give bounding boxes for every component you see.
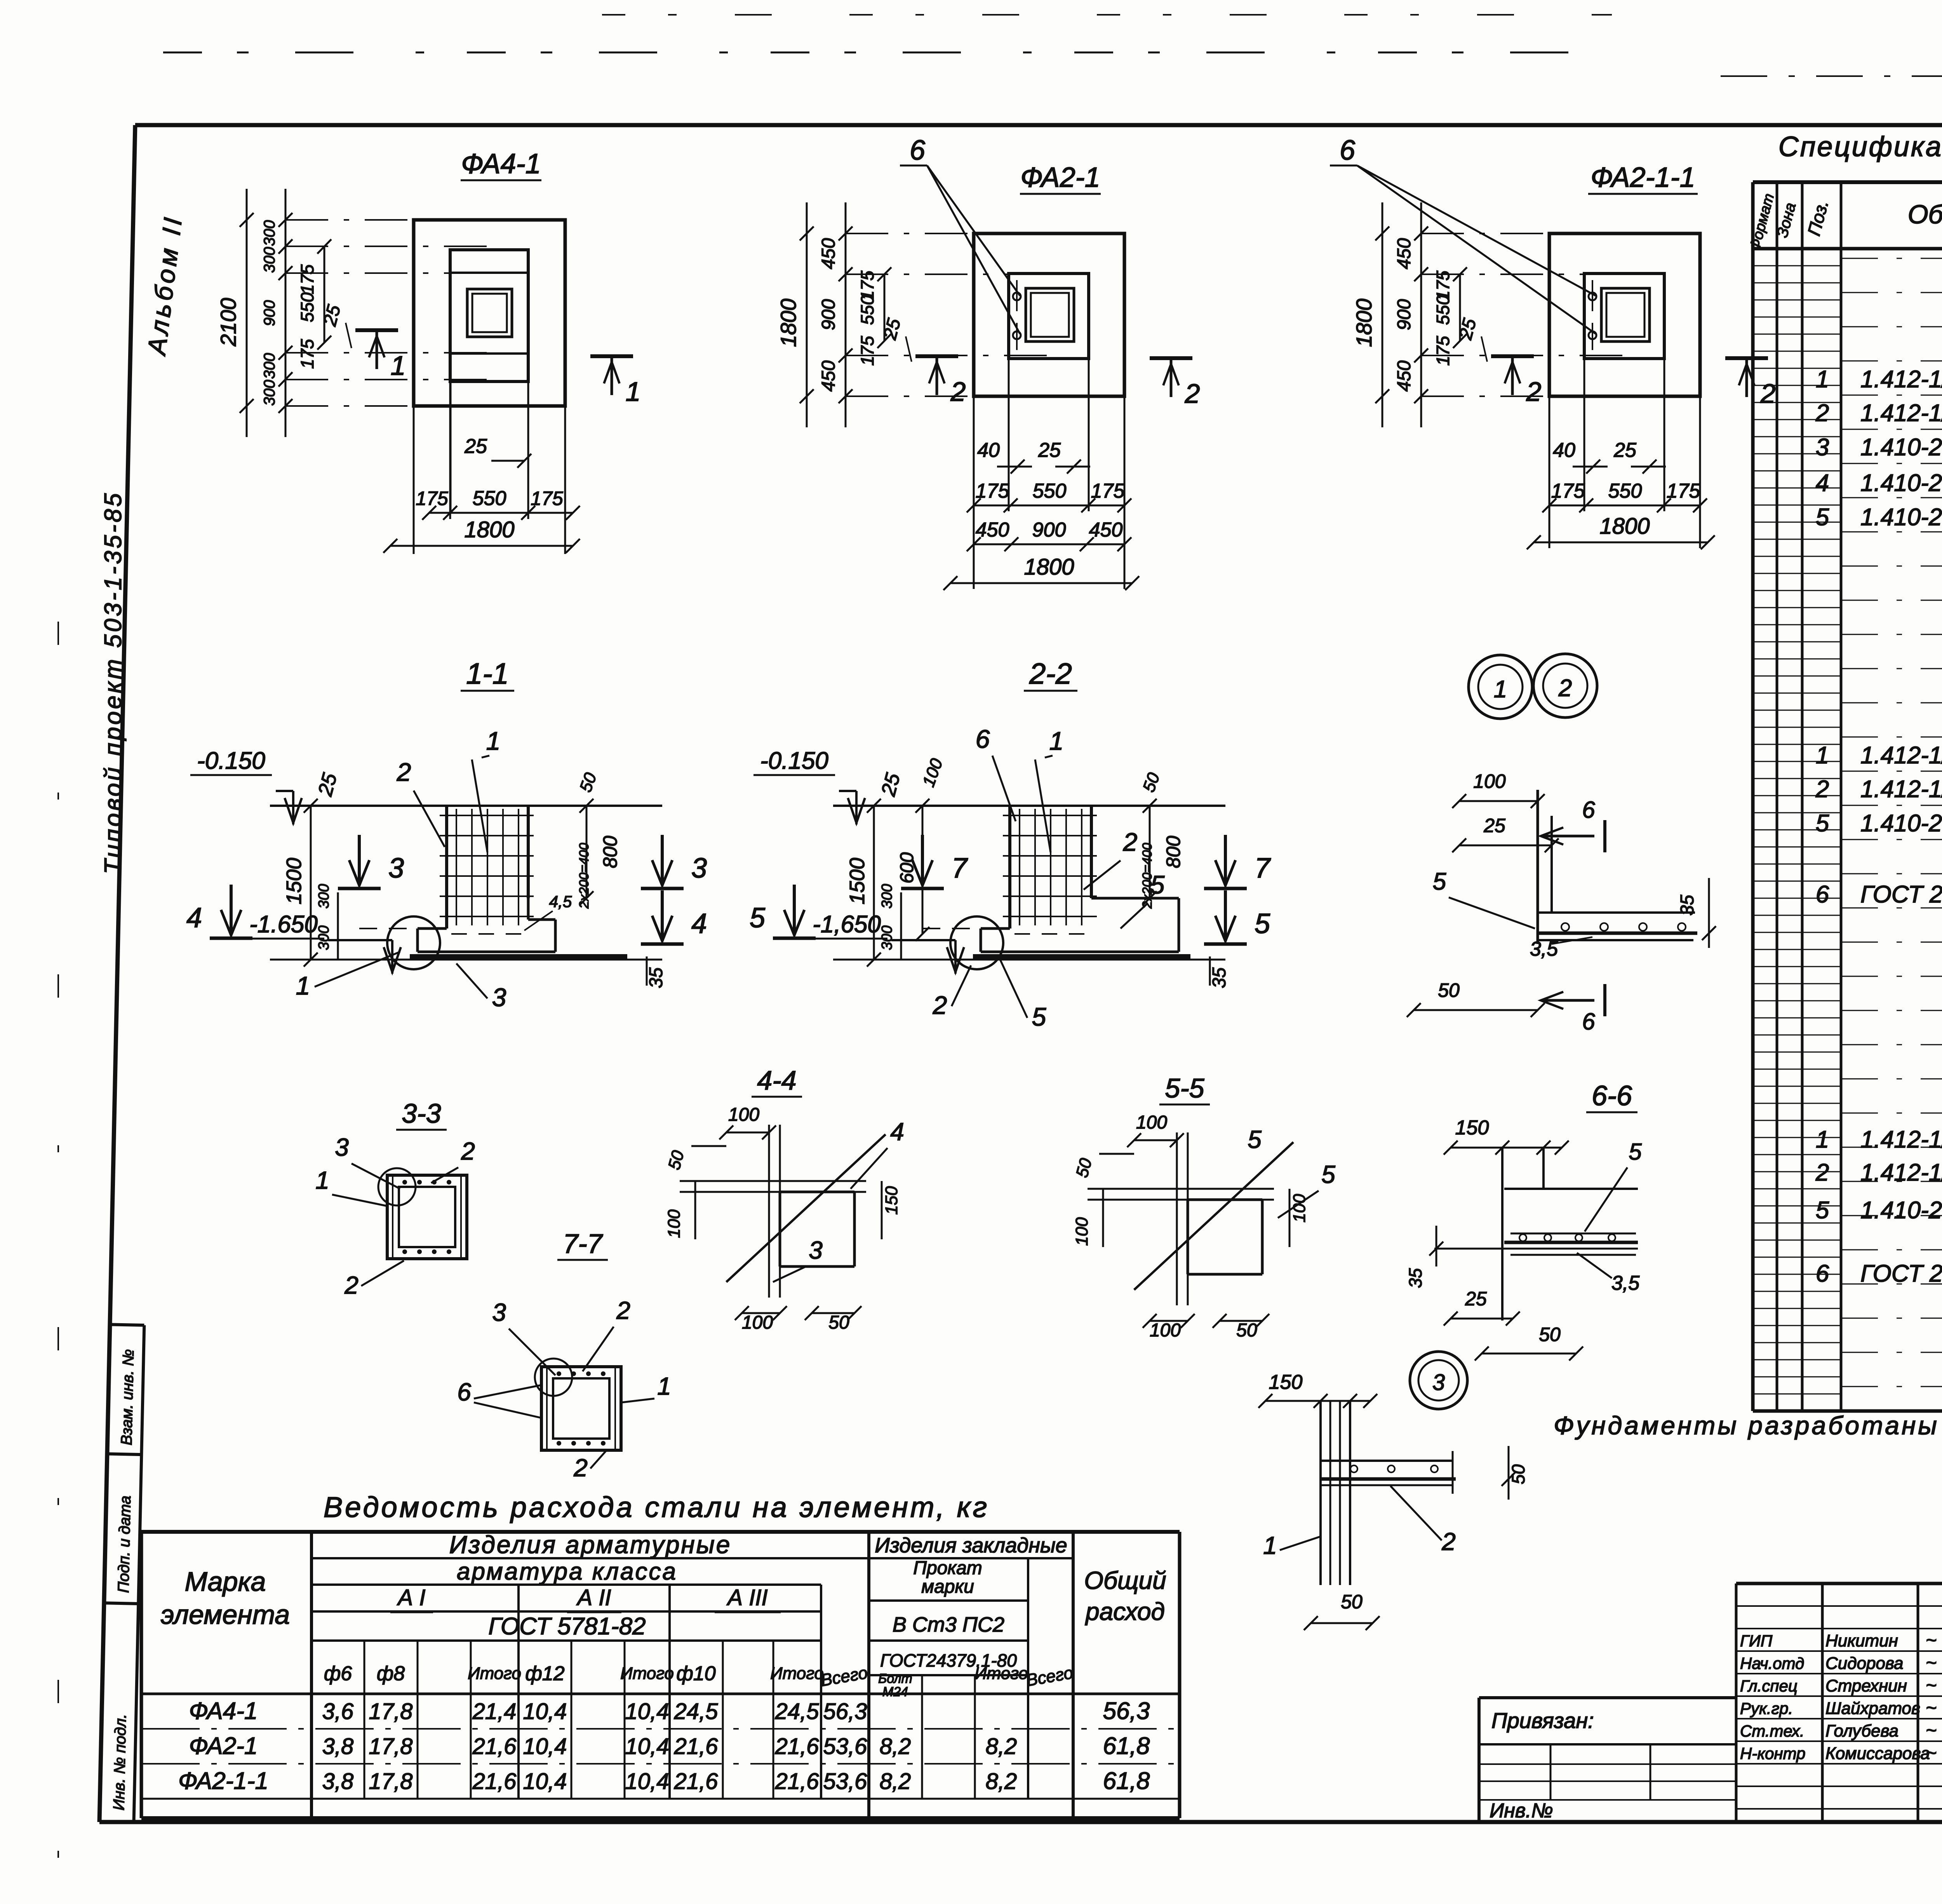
svg-text:1.410-2 вып.1 л. 2: 1.410-2 вып.1 л. 2 [1860,1197,1942,1224]
svg-text:5: 5 [1629,1139,1642,1165]
svg-text:арматура класса: арматура класса [457,1558,677,1585]
svg-text:2: 2 [1558,675,1572,702]
svg-text:Ст.тех.: Ст.тех. [1740,1722,1805,1740]
svg-text:150: 150 [882,1186,901,1215]
svg-text:56,3: 56,3 [1103,1698,1150,1725]
svg-text:17,8: 17,8 [369,1769,413,1794]
svg-text:21,6: 21,6 [775,1769,820,1794]
svg-text:24,5: 24,5 [674,1699,719,1724]
svg-text:35: 35 [1209,967,1230,988]
svg-text:элемента: элемента [161,1599,290,1630]
svg-text:175: 175 [416,488,448,509]
svg-text:24,5: 24,5 [775,1699,820,1724]
svg-text:3: 3 [492,983,506,1012]
svg-text:2: 2 [461,1137,475,1165]
svg-text:6: 6 [1582,1009,1595,1035]
svg-text:300: 300 [316,925,332,950]
svg-text:~: ~ [1926,1743,1937,1763]
svg-text:50: 50 [1508,1464,1528,1484]
svg-text:расход: расход [1085,1597,1165,1625]
svg-text:900: 900 [1032,519,1066,541]
svg-text:2: 2 [933,991,947,1019]
svg-text:3,5: 3,5 [1530,938,1558,960]
svg-text:1: 1 [1816,742,1829,769]
svg-text:40: 40 [1553,439,1575,462]
svg-text:~: ~ [1926,1698,1937,1718]
svg-text:А III: А III [726,1585,767,1610]
svg-text:21,6: 21,6 [674,1734,719,1759]
svg-text:ф8: ф8 [377,1662,405,1685]
svg-text:25: 25 [1483,815,1505,836]
svg-text:~: ~ [1926,1720,1937,1741]
svg-text:450: 450 [818,361,839,392]
svg-text:ГОСТ 24379.1-80: ГОСТ 24379.1-80 [1860,881,1942,908]
svg-text:1: 1 [315,1166,329,1194]
svg-text:Гл.спец: Гл.спец [1740,1677,1798,1695]
svg-text:Стрехнин: Стрехнин [1825,1676,1907,1695]
svg-text:Изделия арматурные: Изделия арматурные [449,1531,732,1559]
svg-text:1.412-1/77 вып.3 л.19: 1.412-1/77 вып.3 л.19 [1860,400,1942,427]
svg-text:1: 1 [1816,366,1829,393]
svg-text:ФА2-1: ФА2-1 [189,1733,258,1759]
svg-text:Нач.отд: Нач.отд [1740,1654,1804,1672]
svg-text:35: 35 [1405,1268,1425,1288]
svg-text:900: 900 [261,300,278,326]
svg-text:25: 25 [464,435,487,458]
svg-text:ФА4-1: ФА4-1 [461,148,541,179]
svg-text:53,6: 53,6 [823,1734,868,1759]
svg-text:ГОСТ 24379.1-80: ГОСТ 24379.1-80 [1860,1260,1942,1287]
svg-text:3,5: 3,5 [1611,1272,1640,1294]
svg-text:3: 3 [1816,434,1829,461]
svg-text:2: 2 [1815,1159,1829,1186]
svg-text:2: 2 [344,1271,358,1299]
svg-text:300: 300 [261,353,278,379]
svg-text:2: 2 [616,1296,630,1324]
svg-text:ф10: ф10 [676,1662,715,1685]
svg-text:1-1: 1-1 [466,657,509,690]
svg-text:550: 550 [1608,480,1642,502]
svg-text:175: 175 [297,339,317,369]
svg-text:ФА2-1-1: ФА2-1-1 [178,1768,268,1794]
svg-text:17,8: 17,8 [369,1699,413,1724]
svg-text:8,2: 8,2 [880,1734,911,1759]
svg-text:8,2: 8,2 [986,1769,1017,1794]
svg-text:450: 450 [818,238,839,269]
svg-text:~: ~ [1926,1653,1937,1673]
svg-text:35: 35 [1677,895,1698,916]
svg-text:марки: марки [921,1577,974,1597]
svg-text:3: 3 [335,1133,349,1161]
svg-text:1: 1 [296,971,310,1000]
svg-text:3-3: 3-3 [402,1098,441,1129]
svg-text:17,8: 17,8 [369,1734,413,1759]
svg-text:150: 150 [1455,1117,1489,1139]
svg-text:6: 6 [976,725,990,753]
svg-text:450: 450 [1394,361,1415,392]
svg-text:2: 2 [1815,400,1829,427]
svg-text:Н-контр: Н-контр [1740,1744,1806,1763]
svg-text:2100: 2100 [216,298,240,347]
svg-text:Подп. и дата: Подп. и дата [115,1495,134,1593]
svg-text:100: 100 [1150,1320,1181,1341]
svg-text:Марка: Марка [185,1566,266,1597]
svg-text:150: 150 [1269,1371,1303,1394]
svg-text:3: 3 [691,853,707,884]
svg-text:1: 1 [626,376,641,407]
svg-text:Голубева: Голубева [1825,1721,1898,1740]
svg-text:7: 7 [1255,853,1271,884]
svg-text:1: 1 [1049,726,1064,755]
svg-text:175: 175 [297,264,317,294]
svg-text:~: ~ [1926,1630,1937,1651]
svg-text:450: 450 [976,519,1009,541]
svg-text:61,8: 61,8 [1103,1768,1150,1794]
svg-text:3: 3 [809,1236,823,1264]
svg-text:300: 300 [261,247,278,273]
svg-text:600: 600 [897,852,917,883]
svg-text:35: 35 [646,967,666,988]
svg-text:~: ~ [1926,1675,1937,1696]
svg-text:1: 1 [657,1372,671,1400]
svg-text:50: 50 [1236,1320,1257,1341]
svg-text:Шайхратов: Шайхратов [1825,1699,1920,1718]
svg-text:6-6: 6-6 [1592,1080,1632,1111]
svg-text:1.410-2 вып.1 л.3: 1.410-2 вып.1 л.3 [1860,434,1942,461]
svg-text:3,6: 3,6 [322,1699,354,1724]
svg-text:1: 1 [1494,676,1507,703]
svg-text:550: 550 [473,487,506,510]
svg-text:5: 5 [1248,1125,1262,1153]
svg-text:1.412-1/77 вып.3 л.5: 1.412-1/77 вып.3 л.5 [1860,742,1942,769]
svg-text:100: 100 [742,1312,773,1333]
svg-text:175: 175 [976,480,1010,502]
svg-text:Комиссарова: Комиссарова [1825,1744,1930,1763]
svg-text:5: 5 [1433,868,1446,895]
svg-text:5: 5 [1816,1197,1829,1224]
svg-text:Рук.гр.: Рук.гр. [1740,1699,1793,1718]
svg-text:5-5: 5-5 [1165,1073,1204,1103]
svg-text:8,2: 8,2 [986,1734,1017,1759]
svg-text:6: 6 [1582,797,1595,823]
svg-text:300: 300 [261,380,278,406]
svg-text:Прокат: Прокат [913,1558,982,1578]
svg-text:1800: 1800 [1599,514,1650,539]
svg-text:50: 50 [1341,1591,1363,1613]
svg-text:25: 25 [1038,439,1061,462]
svg-text:10,4: 10,4 [625,1699,669,1724]
svg-text:Итого: Итого [974,1664,1028,1683]
svg-text:3,8: 3,8 [322,1769,354,1794]
svg-text:1.410-2 вып.1 л. 22: 1.410-2 вып.1 л. 22 [1860,470,1942,496]
svg-text:Итого: Итого [468,1664,521,1683]
svg-text:ФА2-1-1: ФА2-1-1 [1590,162,1695,193]
svg-text:Итого: Итого [770,1664,824,1683]
svg-text:1.412-1/77 вып.3 л.5: 1.412-1/77 вып.3 л.5 [1860,366,1942,393]
svg-text:100: 100 [1136,1112,1167,1133]
svg-text:175: 175 [1551,480,1585,502]
svg-text:900: 900 [818,299,839,330]
svg-text:8,2: 8,2 [880,1769,911,1794]
svg-text:Инв. № подл.: Инв. № подл. [110,1714,129,1810]
svg-text:4-4: 4-4 [757,1065,796,1096]
svg-text:ф6: ф6 [324,1662,352,1685]
svg-text:ФА4-1: ФА4-1 [189,1698,258,1725]
svg-text:3: 3 [492,1298,506,1326]
svg-text:10,4: 10,4 [625,1769,669,1794]
svg-text:ФА2-1: ФА2-1 [1020,162,1100,193]
svg-text:Общий: Общий [1084,1566,1166,1594]
svg-text:4,5: 4,5 [549,892,572,911]
svg-text:10,4: 10,4 [523,1734,567,1759]
svg-text:550: 550 [857,295,877,325]
svg-text:21,6: 21,6 [775,1734,820,1759]
svg-text:5: 5 [1150,870,1165,899]
svg-text:50: 50 [828,1312,849,1333]
svg-text:450: 450 [1394,238,1415,269]
svg-text:-0.150: -0.150 [197,747,265,774]
svg-text:300: 300 [879,884,895,908]
svg-text:1800: 1800 [1024,554,1074,580]
svg-text:175: 175 [531,488,563,509]
svg-text:3: 3 [1432,1370,1445,1395]
svg-text:2: 2 [1815,776,1829,803]
svg-text:5: 5 [1816,810,1829,837]
svg-text:2-2: 2-2 [1029,657,1072,690]
svg-text:Обозначение: Обозначение [1908,200,1942,229]
svg-text:ГИП: ГИП [1740,1632,1773,1650]
svg-text:А II: А II [576,1585,611,1610]
svg-text:10,4: 10,4 [523,1699,567,1724]
svg-text:1: 1 [486,726,501,755]
svg-text:300: 300 [316,884,332,908]
svg-text:2: 2 [1441,1528,1456,1556]
svg-text:6: 6 [1816,881,1829,908]
svg-text:21,6: 21,6 [472,1734,517,1759]
svg-text:61,8: 61,8 [1103,1733,1150,1759]
svg-text:6: 6 [457,1378,471,1406]
svg-text:5: 5 [1032,1002,1046,1031]
svg-text:1.412-1/77 вып.3 л.19: 1.412-1/77 вып.3 л.19 [1860,776,1942,803]
svg-text:1: 1 [391,350,406,381]
svg-text:50: 50 [1539,1324,1561,1345]
svg-text:5: 5 [750,902,766,934]
svg-text:550: 550 [297,292,317,322]
svg-text:300: 300 [879,925,895,950]
svg-text:175: 175 [1091,480,1125,502]
svg-text:Болт: Болт [878,1671,912,1686]
svg-text:1: 1 [1816,1126,1829,1153]
svg-text:Итого: Итого [620,1664,674,1683]
svg-text:900: 900 [1394,299,1415,330]
svg-text:Сидорова: Сидорова [1825,1654,1903,1673]
svg-text:1.412-1/77 вып.3 л.19: 1.412-1/77 вып.3 л.19 [1860,1159,1942,1186]
svg-text:4: 4 [1816,470,1829,496]
svg-text:7-7: 7-7 [563,1228,603,1259]
svg-text:10,4: 10,4 [523,1769,567,1794]
svg-text:3,8: 3,8 [322,1734,354,1759]
svg-text:1500: 1500 [282,858,306,904]
svg-text:100: 100 [1072,1217,1091,1246]
svg-text:1.412-1/77 вып.3 л.5: 1.412-1/77 вып.3 л.5 [1860,1126,1942,1153]
svg-text:300: 300 [261,220,278,246]
svg-text:2: 2 [1526,376,1542,407]
svg-text:1800: 1800 [1352,299,1376,347]
svg-text:5: 5 [1321,1160,1335,1188]
svg-text:56,3: 56,3 [823,1699,867,1724]
svg-text:53,6: 53,6 [823,1769,868,1794]
svg-text:100: 100 [1473,770,1506,792]
svg-text:6: 6 [1340,135,1356,166]
svg-text:175: 175 [857,336,877,366]
svg-text:1.410-2 вып.1 л.2: 1.410-2 вып.1 л.2 [1860,810,1942,837]
svg-text:25: 25 [1465,1288,1487,1310]
svg-text:5: 5 [1255,908,1270,939]
svg-text:-1.650: -1.650 [249,911,318,938]
svg-text:2: 2 [1185,378,1200,409]
svg-text:4: 4 [890,1118,904,1146]
svg-text:Никитин: Никитин [1825,1631,1898,1650]
svg-text:2: 2 [1123,827,1138,856]
svg-text:ГОСТ 5781-82: ГОСТ 5781-82 [488,1613,646,1640]
svg-text:100: 100 [728,1104,759,1125]
svg-text:2: 2 [1760,378,1776,409]
svg-text:1.410-2 вып.1 л. 2: 1.410-2 вып.1 л. 2 [1860,504,1942,531]
svg-text:1800: 1800 [464,517,514,542]
svg-text:-1,650: -1,650 [813,911,881,938]
svg-text:175: 175 [1667,480,1701,502]
svg-text:Ведомость расхода стали на эле: Ведомость расхода стали на элемент, кг [324,1491,989,1523]
svg-text:2: 2 [397,758,411,786]
svg-text:10,4: 10,4 [625,1734,669,1759]
svg-text:Инв.№: Инв.№ [1490,1799,1553,1822]
svg-text:450: 450 [1089,519,1123,541]
svg-text:Взам. инв. №: Взам. инв. № [118,1349,137,1445]
svg-text:21,4: 21,4 [472,1699,517,1724]
svg-text:50: 50 [1438,979,1460,1001]
svg-text:6: 6 [1816,1260,1829,1287]
svg-text:3: 3 [388,853,404,884]
svg-text:4: 4 [691,908,707,939]
svg-text:40: 40 [977,439,1000,462]
svg-text:-0.150: -0.150 [760,747,828,774]
svg-text:100: 100 [665,1209,684,1238]
svg-text:25: 25 [1613,439,1637,462]
svg-text:550: 550 [1433,295,1453,325]
svg-text:Типовой проект 503-1-35-85: Типовой проект 503-1-35-85 [100,491,127,874]
svg-text:В Ст3 ПС2: В Ст3 ПС2 [893,1613,1004,1636]
svg-text:21,6: 21,6 [674,1769,719,1794]
svg-text:1800: 1800 [776,299,800,347]
svg-text:Фундаменты разработаны на осно: Фундаменты разработаны на основании сери… [1554,1411,1942,1440]
svg-text:А I: А I [397,1585,426,1610]
svg-text:7: 7 [952,853,968,884]
svg-text:4: 4 [186,902,202,934]
svg-text:ф12: ф12 [525,1662,564,1685]
svg-text:175: 175 [1433,336,1453,366]
svg-text:800: 800 [599,836,621,868]
svg-text:2: 2 [950,376,966,407]
svg-text:Привязан:: Привязан: [1491,1708,1594,1733]
svg-text:21,6: 21,6 [472,1769,517,1794]
svg-text:2х200=400: 2х200=400 [577,843,592,909]
svg-text:800: 800 [1162,836,1184,868]
svg-text:550: 550 [1033,480,1067,502]
svg-text:Спецификация монолитных желе: Спецификация монолитных железобетонных [1778,131,1942,162]
svg-text:1500: 1500 [846,858,869,904]
svg-text:1: 1 [1263,1531,1277,1559]
svg-text:М24: М24 [882,1685,908,1699]
svg-text:6: 6 [910,135,926,166]
svg-text:Изделия закладные: Изделия закладные [875,1534,1067,1557]
svg-text:2: 2 [573,1454,588,1482]
svg-text:5: 5 [1816,504,1829,531]
